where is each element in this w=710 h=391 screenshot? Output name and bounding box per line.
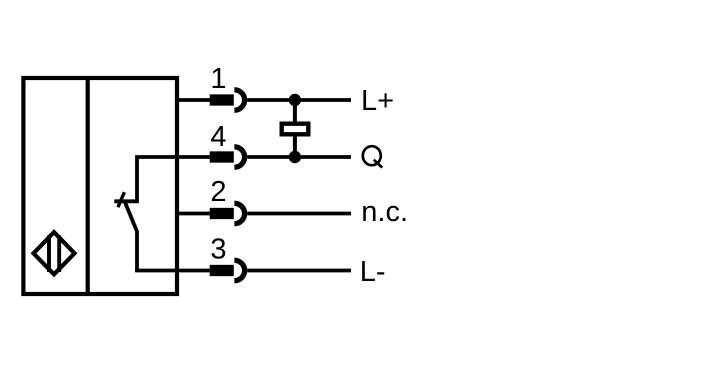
node junction on L+ <box>289 94 301 106</box>
label Q <box>363 146 382 167</box>
svg-text:4: 4 <box>210 121 226 153</box>
wire pin1 left <box>176 98 211 102</box>
pin 1 socket arc <box>234 90 244 110</box>
switch blade to pin 3 <box>125 202 137 272</box>
wire pin2 left <box>176 212 211 216</box>
wire L+ <box>247 98 351 102</box>
pin 2 contact <box>210 208 234 219</box>
wire L- <box>247 269 351 273</box>
svg-text:n.c.: n.c. <box>361 196 408 228</box>
svg-text:L+: L+ <box>361 85 394 117</box>
switch actuation tick <box>118 192 125 207</box>
sensor symbol left bar <box>47 235 51 272</box>
sensor symbol right bar <box>57 235 61 272</box>
switch S1 fixed contact and wire to pin 4 <box>114 157 210 201</box>
pin 3 contact <box>210 265 234 276</box>
wire n.c. <box>247 212 351 216</box>
inductive sensor symbol (diamond) <box>34 232 75 274</box>
pin 2 socket arc <box>234 203 244 223</box>
load vertical wire <box>293 100 297 157</box>
svg-text:L-: L- <box>360 256 386 288</box>
wire Q <box>247 155 351 159</box>
svg-text:1: 1 <box>210 63 226 95</box>
sensor body outline <box>23 78 177 294</box>
pin 4 socket arc <box>234 147 244 167</box>
pin 3 socket arc <box>234 260 244 280</box>
svg-text:3: 3 <box>210 234 226 266</box>
wire pin3 left <box>135 269 210 273</box>
sensor body divider <box>86 76 90 296</box>
svg-text:2: 2 <box>210 176 226 208</box>
load resistor <box>282 124 309 135</box>
node junction on Q <box>289 151 301 163</box>
pin 1 contact <box>210 94 234 105</box>
pin 4 contact <box>210 151 234 162</box>
